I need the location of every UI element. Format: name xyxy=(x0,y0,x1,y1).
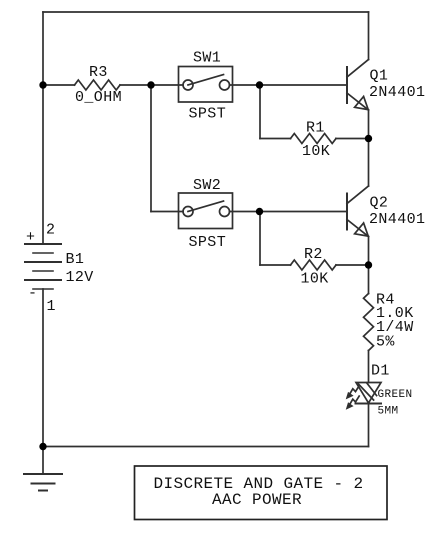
resistor R1 xyxy=(291,134,337,144)
wire R1 branch vertical xyxy=(259,85,261,139)
wire R4 top lead xyxy=(368,265,370,294)
LED D1 xyxy=(347,383,381,409)
svg-text:-: - xyxy=(28,285,37,302)
node dot bottom rail/ground xyxy=(39,443,46,450)
svg-text:1: 1 xyxy=(47,298,56,315)
wire Q1 base xyxy=(260,84,348,86)
svg-text:B1: B1 xyxy=(66,251,85,268)
svg-text:SW2: SW2 xyxy=(193,177,221,194)
node dot Q1 emitter/R1/Q2 collector xyxy=(365,135,372,142)
wire R3 to node xyxy=(120,84,151,86)
wire R2 right lead xyxy=(336,264,369,266)
svg-text:5%: 5% xyxy=(376,334,395,351)
wire R1 left lead xyxy=(260,138,291,140)
wire Q2 collector xyxy=(368,139,370,187)
wire bottom rail xyxy=(43,446,369,448)
svg-text:10K: 10K xyxy=(302,143,330,160)
wire node to SW1 xyxy=(151,84,183,86)
wire left rail upper xyxy=(42,12,44,244)
wire Q2 base xyxy=(260,211,348,213)
svg-text:2N4401: 2N4401 xyxy=(369,211,425,228)
svg-text:R3: R3 xyxy=(89,64,108,81)
transistor Q1 xyxy=(347,60,369,111)
switch SW1 xyxy=(179,67,233,103)
wire left rail lower xyxy=(42,289,44,447)
wire R2 left lead xyxy=(260,264,291,266)
wire branch down to SW2 xyxy=(150,85,152,212)
svg-text:5MM: 5MM xyxy=(378,406,399,418)
wire R1 right lead xyxy=(336,138,369,140)
svg-text:2: 2 xyxy=(46,222,55,239)
resistor R4 xyxy=(364,294,374,351)
wire to SW2 xyxy=(151,211,183,213)
svg-text:R2: R2 xyxy=(304,246,323,263)
wire R2 branch vertical xyxy=(259,212,261,266)
svg-text:SW1: SW1 xyxy=(193,50,221,67)
wire R4 bottom lead xyxy=(368,351,370,383)
wire Q1 collector xyxy=(368,12,370,60)
node dot Q2 emitter/R2/R4 xyxy=(365,261,372,268)
node dot left rail/R3 xyxy=(39,81,46,88)
wire SW1 to node xyxy=(230,84,260,86)
svg-text:D1: D1 xyxy=(371,363,390,380)
wire R3 left lead xyxy=(43,84,75,86)
resistor R3 xyxy=(75,80,121,90)
switch SW2 xyxy=(179,193,233,229)
wire SW2 to node xyxy=(230,211,260,213)
svg-text:R1: R1 xyxy=(306,120,325,137)
node dot SW2/Q2 base/R2 xyxy=(256,208,263,215)
wire top rail xyxy=(43,11,369,13)
svg-text:12V: 12V xyxy=(66,269,94,286)
svg-text:10K: 10K xyxy=(301,271,329,288)
wire Q1 emitter xyxy=(368,110,370,139)
node dot SW1/Q1 base/R1 xyxy=(256,81,263,88)
svg-text:SPST: SPST xyxy=(189,106,227,123)
svg-text:GREEN: GREEN xyxy=(378,389,413,401)
resistor R2 xyxy=(291,260,337,270)
svg-text:2N4401: 2N4401 xyxy=(369,84,425,101)
svg-text:SPST: SPST xyxy=(189,234,227,251)
battery B1 plates xyxy=(25,244,61,289)
svg-text:Q2: Q2 xyxy=(370,195,389,212)
title box xyxy=(135,466,388,520)
svg-text:+: + xyxy=(26,229,35,246)
svg-text:AAC POWER: AAC POWER xyxy=(212,491,302,509)
svg-text:Q1: Q1 xyxy=(370,68,389,85)
node dot R3/SW1/SW2 branch xyxy=(147,81,154,88)
transistor Q2 xyxy=(347,186,369,237)
wire D1 cathode to rail xyxy=(368,404,370,447)
ground xyxy=(24,447,62,491)
wire Q2 emitter xyxy=(368,237,370,266)
svg-text:0_OHM: 0_OHM xyxy=(75,89,122,106)
